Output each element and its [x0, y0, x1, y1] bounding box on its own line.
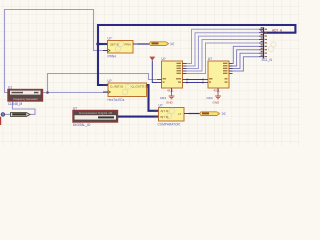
svg-text:U?: U? [108, 37, 112, 41]
IC1 output fan wires (lavender) [187, 29, 260, 73]
svg-text:PRN: PRN [125, 43, 131, 47]
Comparator Digits IO sheet symbol [73, 107, 118, 127]
junction on bus at FF1 [96, 42, 99, 45]
pin stubs Hex2LED [103, 85, 149, 92]
svg-text:43JL: 43JL [167, 88, 174, 92]
svg-text:DIGITAL_IO: DIGITAL_IO [73, 123, 91, 127]
connector pins [259, 29, 264, 56]
svg-text:1P: 1P [260, 28, 264, 32]
svg-text:PRN4: PRN4 [108, 55, 117, 59]
bus: sheet symbol to comparator B [118, 116, 159, 118]
bus: Hex2LED output down to comparator A [147, 85, 159, 111]
port-circle net wires (lavender) [4, 113, 10, 115]
wire Q8 [232, 53, 260, 68]
no-ERC marker [170, 43, 174, 46]
component body U? Hex2LED [108, 83, 147, 97]
ghost glyph connector [268, 42, 276, 52]
svg-text:43JL: 43JL [214, 88, 221, 92]
svg-text:U?: U? [73, 107, 77, 111]
sheet background [0, 0, 300, 146]
svg-text:U?: U? [159, 104, 163, 108]
wire Q6 [232, 46, 260, 63]
svg-text:SCL_N: SCL_N [262, 58, 273, 62]
wire: branch FG clock to IC1 CP [48, 74, 158, 93]
wire carry1 [187, 79, 204, 81]
wire Q3 [187, 36, 260, 68]
component body U? IC1 [162, 61, 183, 88]
pin stubs FF1 [103, 44, 138, 51]
svg-text:D_IN[7:0]: D_IN[7:0] [110, 84, 123, 88]
svg-text:GND: GND [166, 101, 174, 105]
wire Q4 [187, 40, 260, 72]
FG inner white row [10, 91, 41, 95]
no-ERC marker comparator [222, 112, 226, 115]
IC2 ground symbol [207, 92, 221, 105]
pin labels IC2 [209, 63, 228, 83]
IC2 counter [204, 57, 233, 92]
bus: top horizontal to connector (thick navy) [98, 25, 295, 33]
svg-text:SET-E: SET-E [110, 43, 119, 47]
sheet symbol FG body [8, 90, 43, 102]
IC1 ground symbol [160, 92, 174, 105]
bus: branch into FF1 pin1 [97, 43, 108, 45]
comparator component [154, 104, 189, 127]
svg-text:LT: LT [178, 112, 181, 116]
component body U? comparator [159, 108, 185, 122]
svg-text:Frequency Generator: Frequency Generator [13, 97, 38, 101]
clock glyph [108, 49, 111, 52]
sheet border segment (left edge) [0, 117, 1, 125]
wire carry2 [187, 82, 204, 84]
svg-text:U1: U1 [8, 86, 12, 90]
FG sheet symbol [8, 86, 43, 106]
component body U? FF1 [108, 41, 134, 54]
pin number marks [261, 27, 263, 55]
IC2 output fan wires (navy thin) [232, 46, 260, 71]
FF1 component [103, 37, 138, 59]
carry wires IC1 to IC2 [187, 80, 204, 83]
junction dots carry [186, 79, 204, 84]
svg-text:CD4: CD4 [160, 96, 166, 100]
pin labels IC1 [163, 63, 182, 83]
IC1 counter [157, 57, 187, 92]
sheet symbol CD body [73, 111, 118, 123]
port EQ (comparator output) [200, 112, 226, 116]
svg-text:COMPARATOR: COMPARATOR [158, 122, 181, 126]
wire Q7 [232, 50, 260, 66]
pin stubs comparator [154, 111, 189, 117]
off-sheet connector circle [1, 113, 5, 117]
svg-text:Comparator Digits IO: Comparator Digits IO [79, 111, 113, 115]
svg-text:U?: U? [208, 57, 212, 61]
junction at FG output [46, 91, 49, 94]
wire net: FG left pin loop to FF1 clock pin (lavender) [5, 10, 108, 93]
wire: FG right pin to Hex2LED D pin [43, 92, 108, 94]
svg-text:Q_OUT[7:0]: Q_OUT[7:0] [132, 84, 148, 88]
ghost glyph [115, 41, 123, 51]
CD inner white row [75, 115, 117, 119]
wire Q1 [187, 29, 260, 63]
svg-text:GND: GND [213, 101, 221, 105]
svg-text:U?: U? [162, 57, 166, 61]
pin stubs IC1 right [157, 64, 187, 93]
svg-text:HexToLEDs: HexToLEDs [108, 98, 125, 102]
wire Q2 [187, 33, 260, 66]
wire: FF1 Q to port [138, 43, 150, 45]
Hex2LED component [103, 79, 149, 102]
CONNECTOR column [259, 27, 283, 62]
wire Q5 [187, 43, 260, 74]
gray port label CLK [11, 113, 31, 117]
connector body line [263, 27, 265, 58]
wire Q9 [232, 57, 260, 71]
bus: left vertical down to Hex2LED [98, 24, 108, 85]
pin name marks [265, 29, 267, 57]
svg-text:B[7:0]: B[7:0] [161, 115, 169, 119]
svg-text:CD4: CD4 [207, 96, 213, 100]
svg-text:A[7:0]: A[7:0] [161, 109, 169, 113]
component body U? IC2 [208, 61, 229, 88]
power symbol stem to IC1 MR [152, 61, 157, 83]
svg-text:AD7_A: AD7_A [272, 29, 283, 33]
svg-text:CLK48_M: CLK48_M [8, 102, 23, 106]
port 1Hz (FF1 output) [149, 42, 174, 46]
power symbol VCC (red) above IC1 [150, 57, 155, 61]
pin stubs IC2 [204, 64, 233, 93]
wire: comparator LT to port [189, 113, 200, 115]
svg-text:U?: U? [108, 79, 112, 83]
